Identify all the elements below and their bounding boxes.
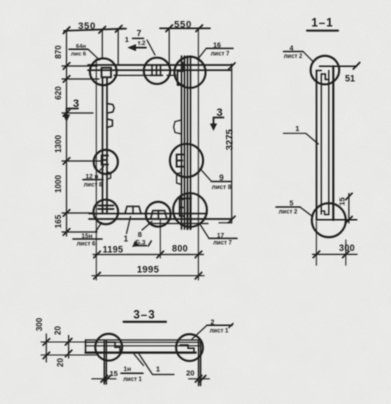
label 17 list7 fraction bar + leader	[209, 237, 237, 239]
20 dim ticks (3-3)	[65, 339, 72, 357]
left chain ticks	[63, 27, 70, 235]
3-3 member bottom thick line	[86, 352, 196, 354]
detail circle mid-right	[170, 144, 203, 177]
right member tab 2	[177, 173, 182, 185]
extension line x=102 (350 left)	[101, 30, 103, 59]
svg-text:2: 2	[211, 319, 215, 326]
svg-text:17: 17	[217, 232, 225, 239]
label 9 list8 fraction bar + leader	[212, 181, 232, 183]
svg-text:620: 620	[54, 86, 63, 100]
3-3 right detail circle	[176, 334, 203, 361]
svg-text:3–3: 3–3	[133, 310, 155, 322]
3-3 right leg	[199, 340, 201, 386]
3-3 extension lines	[41, 342, 96, 355]
svg-text:20: 20	[186, 369, 194, 378]
label 4 list2 fraction bar + leader	[284, 51, 304, 53]
B.3 underline + arrow	[134, 245, 147, 247]
label 16 list7 fraction bar + leader	[206, 47, 233, 49]
svg-text:1: 1	[156, 365, 160, 374]
svg-text:лист 7: лист 7	[211, 52, 230, 58]
svg-text:лист 8: лист 8	[84, 183, 103, 189]
15 dim ticks	[346, 193, 353, 223]
svg-text:лист 1: лист 1	[123, 377, 142, 383]
detail circle top-middle	[144, 58, 170, 84]
label 1 leader (1-1)	[283, 133, 318, 144]
title 3-3 underline	[124, 321, 167, 323]
svg-text:20: 20	[54, 326, 63, 335]
svg-text:3275: 3275	[225, 129, 236, 151]
svg-text:800: 800	[172, 244, 188, 254]
label 12 list8 fraction bar + leader	[83, 179, 103, 181]
svg-text:15н: 15н	[81, 233, 92, 240]
label 1 leader (bottom)	[127, 217, 131, 234]
3-3 member left end	[85, 340, 87, 353]
svg-text:16: 16	[213, 42, 221, 49]
left member top box detail	[102, 68, 112, 78]
left member tab 3	[107, 172, 111, 179]
svg-text:5: 5	[290, 200, 294, 207]
top dimension line	[64, 28, 210, 31]
label 8 leader	[142, 222, 152, 231]
dim line 1995	[92, 275, 204, 277]
label 2 list1 fraction bar + leader	[207, 324, 233, 328]
svg-text:1300: 1300	[54, 135, 63, 153]
extension line x=118 (350 right)	[117, 29, 119, 65]
20 dim line under right leg	[189, 378, 210, 380]
extension line x=169 (550 left)	[168, 28, 170, 66]
top rail third line segment	[114, 74, 176, 76]
svg-text:7: 7	[137, 28, 142, 38]
svg-text:лис 6: лис 6	[71, 52, 87, 58]
leader from 7 to circle	[147, 40, 155, 55]
detail circle bottom-left	[94, 200, 119, 225]
extension line x=160.5 (1195/800)	[159, 220, 161, 259]
top rail (two lines)	[88, 65, 232, 70]
slash mark right of B.3	[148, 241, 151, 246]
20 dim vertical (3-3)	[68, 336, 70, 359]
bottom rail (two lines)	[89, 214, 232, 219]
detail circle bottom-right	[173, 193, 207, 227]
detail circle bottom-middle	[146, 202, 171, 227]
15 dim vertical (1-1 bottom right)	[348, 194, 350, 224]
300 dim ticks	[313, 251, 349, 258]
svg-text:8: 8	[138, 230, 142, 239]
300 dim ticks (3-3)	[43, 339, 50, 359]
svg-text:20: 20	[56, 358, 65, 367]
svg-text:лист 6: лист 6	[77, 242, 96, 248]
svg-text:550: 550	[174, 20, 192, 31]
1-1 member bottom U	[321, 211, 329, 215]
1-1 tick at 51 dim	[353, 63, 360, 70]
left member tab 2	[107, 119, 112, 127]
svg-text:870: 870	[54, 45, 63, 59]
top-right corner step detail	[178, 63, 184, 86]
right member vertical lines	[182, 56, 191, 229]
svg-text:лист 8: лист 8	[212, 184, 232, 191]
section marker 3 right arrow	[214, 118, 224, 127]
svg-text:1–1: 1–1	[311, 18, 333, 30]
1-1 member inner lines	[321, 71, 329, 215]
top dim ticks	[99, 25, 203, 33]
ticks 1195/800	[94, 251, 202, 258]
svg-text:1000: 1000	[54, 175, 63, 193]
svg-text:4: 4	[290, 45, 294, 52]
svg-text:12 н: 12 н	[86, 174, 99, 181]
3-3 left leg	[104, 341, 106, 384]
view marker 7 fraction bar	[133, 37, 144, 39]
bracket on bottom rail left of middle	[125, 206, 141, 213]
view marker 7 arrow	[133, 47, 146, 49]
label 5 list2 fraction bar + leader	[276, 206, 300, 208]
bottom rail lower edge segment	[150, 222, 232, 225]
right member tab 1	[174, 120, 182, 134]
left dim chain vertical line	[66, 31, 68, 237]
ticks 1995	[94, 272, 202, 279]
section marker 3 left arrow	[67, 109, 79, 118]
svg-text:300: 300	[35, 317, 44, 331]
1-1 member outer right line	[332, 66, 334, 220]
dim line 1195/800	[93, 254, 204, 256]
ticks 3275	[229, 63, 236, 223]
svg-text:350: 350	[78, 21, 96, 32]
15 dim line under left leg	[92, 378, 116, 380]
long extension line x=96 (1995 left / frame edge)	[95, 59, 97, 280]
svg-text:64н: 64н	[76, 44, 86, 50]
3-3 left step detail	[106, 342, 120, 352]
300 dim line (1-1)	[313, 253, 358, 255]
label 15n list6 fraction bar + leader	[73, 238, 102, 240]
top-middle circle weld detail	[150, 66, 163, 76]
detail circle top-left	[90, 58, 117, 85]
15 dim ticks	[101, 376, 111, 383]
svg-text:51: 51	[345, 74, 355, 84]
label 1n list1 fraction bar	[121, 372, 143, 374]
svg-text:лист 7: лист 7	[213, 241, 232, 247]
300 dim vertical (3-3)	[45, 334, 47, 362]
leader to 1n	[134, 354, 144, 366]
1-1 bottom detail circle	[312, 203, 346, 237]
left member bottom cap plate	[98, 206, 114, 210]
svg-text:1: 1	[124, 235, 129, 244]
svg-text:1995: 1995	[137, 265, 160, 276]
3-3 right step detail	[180, 345, 194, 352]
1-1 bottom line extending right	[317, 219, 357, 221]
1-1 member outer left line	[316, 71, 318, 221]
svg-text:3: 3	[216, 107, 222, 119]
left member vertical lines	[103, 77, 108, 213]
svg-text:1195: 1195	[103, 245, 124, 255]
left member clip in mid circle	[102, 156, 108, 165]
svg-text:1н: 1н	[124, 366, 132, 373]
long extension line x=198.5 (550 right / 1995 right)	[197, 28, 199, 280]
svg-text:3: 3	[73, 98, 79, 110]
svg-text:1: 1	[295, 124, 299, 133]
svg-text:15: 15	[338, 197, 347, 205]
left member tab 1	[107, 104, 114, 114]
left chain extension lines	[62, 66, 101, 232]
svg-text:лист 2: лист 2	[284, 54, 303, 60]
bracket in bottom-middle circle	[151, 211, 167, 219]
1-1 top detail circle	[311, 56, 340, 85]
3-3 member horizontal lines	[86, 340, 201, 346]
svg-text:9: 9	[219, 174, 224, 183]
1-1 member top cap line	[320, 65, 357, 67]
1-1 top step detail	[317, 71, 329, 80]
right member darker bottom segment	[188, 195, 191, 229]
20 dim ticks	[195, 376, 205, 383]
svg-text:300: 300	[339, 243, 355, 253]
3-3 left detail circle	[95, 334, 122, 361]
detail circle top-right	[174, 57, 205, 88]
svg-text:15: 15	[110, 369, 118, 378]
label 1 leader (3-3)	[139, 354, 174, 375]
svg-text:165: 165	[54, 214, 63, 228]
dim line 3275 vertical	[231, 64, 233, 223]
bottom-right clip detail	[180, 198, 191, 216]
svg-text:лист 1: лист 1	[210, 329, 229, 335]
svg-text:т.2: т.2	[137, 40, 145, 47]
detail circle mid-left	[94, 150, 118, 174]
svg-text:1: 1	[125, 35, 129, 44]
svg-text:Б.3: Б.3	[135, 240, 145, 247]
right member clip in mid circle	[177, 155, 184, 167]
label 64n list6 fraction bar + leader	[69, 48, 88, 50]
title 1-1 underline	[307, 30, 338, 32]
svg-text:лист 2: лист 2	[279, 210, 298, 216]
300 extension lines	[316, 222, 345, 266]
